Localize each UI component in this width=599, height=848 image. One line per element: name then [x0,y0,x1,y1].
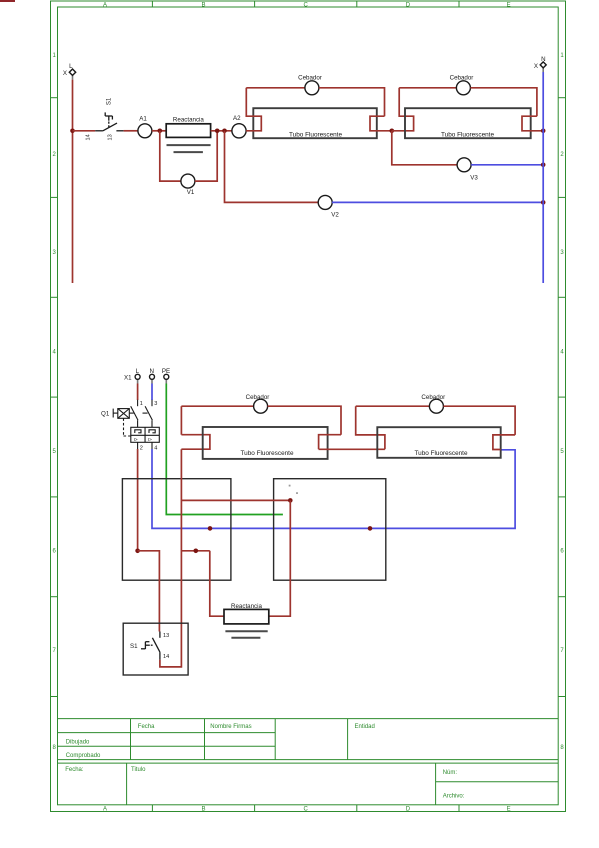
svg-text:A2: A2 [233,115,241,122]
frame column letters top [103,2,511,8]
svg-text:8: 8 [560,745,564,751]
svg-text:3: 3 [154,401,157,407]
box right tiny marks [289,485,291,487]
svg-text:4: 4 [560,350,564,356]
tube 4 right electrode [493,435,515,450]
starter cebador 1 [305,81,319,95]
svg-text:Tubo Fluorescente: Tubo Fluorescente [240,450,293,457]
tube 2 right electrode [522,116,543,131]
wire A1 to reactancia [152,130,166,132]
thermal hook pole 2 [149,430,155,433]
mechanical dashed link [123,418,125,436]
wire reactancia to A2 [211,130,232,132]
wire N down to Q1 (blue) [151,384,153,401]
wire node-A horizontal [181,499,290,501]
frame row numbers right [560,53,564,751]
svg-text:Tubo Fluorescente: Tubo Fluorescente [414,450,467,457]
actuator box [118,409,130,419]
trip unit box [131,427,160,442]
svg-text:Cebador: Cebador [450,74,474,81]
lamp V2 [318,195,332,209]
top column ticks [151,1,153,7]
left row ticks [51,97,58,99]
svg-text:14: 14 [86,134,92,140]
terminal X (N, top-right) [534,56,546,72]
svg-text:6: 6 [560,549,564,555]
bottom column ticks [151,805,153,812]
tube 2 body [405,108,531,138]
svg-text:A: A [103,2,107,8]
switch S1 (top, horizontal push-button NO) [95,112,123,130]
svg-text:D: D [406,807,411,813]
luminaire box left [122,479,230,581]
svg-text:Cebador: Cebador [421,394,445,401]
node V1 return [215,129,220,134]
starter cebador 2 [456,81,470,95]
svg-text:Cebador: Cebador [246,394,270,401]
svg-text:V2: V2 [331,212,339,219]
tube 1 left electrode [246,88,261,131]
terminal X1-PE [162,368,170,383]
link bars [129,412,134,414]
svg-text:7: 7 [560,648,564,654]
svg-text:2: 2 [140,445,143,451]
node dot2 [194,549,199,554]
inner border [58,7,559,805]
svg-text:A1: A1 [139,116,147,123]
tube 3 left electrode [181,435,210,450]
svg-text:1: 1 [140,401,143,407]
wire reactancia right riser [269,500,291,616]
svg-text:6: 6 [53,549,57,555]
luminaire box right [274,479,386,581]
svg-text:V1: V1 [187,189,195,196]
frame row numbers left [53,53,57,751]
svg-text:I>: I> [148,437,152,442]
wire cebador 1 right [319,88,385,116]
starter cebador 4 [429,399,443,413]
svg-text:2: 2 [53,152,57,158]
pole 1 blade [131,406,138,420]
terminal X1-L [135,368,140,383]
wire to reactancia left [210,551,224,616]
pole leads below [137,442,139,449]
node V3-N [541,163,546,168]
svg-text:Núm:: Núm: [443,770,458,776]
tube 3 left electrode riser to cebador [180,406,182,435]
wire cebador 3 left [181,405,253,407]
svg-text:8: 8 [53,745,57,751]
svg-text:I>: I> [134,437,138,442]
svg-text:D: D [406,2,411,8]
node L junction [70,129,75,134]
svg-text:X: X [63,70,67,77]
wire Q1-4 down + neutral bus (blue) [152,449,515,528]
svg-text:Dibujado: Dibujado [66,740,90,746]
wire V1 branch left [160,131,181,181]
svg-text:Reactancia: Reactancia [173,116,205,123]
svg-text:X1: X1 [124,374,132,381]
svg-text:4: 4 [53,350,57,356]
tube 1 body [253,108,376,138]
tube 4 left electrode [356,406,385,449]
wire V2 to N (blue) [332,201,543,203]
svg-text:Titulo: Titulo [131,767,146,773]
lamp V3 [457,158,471,172]
svg-text:B: B [201,807,205,813]
svg-text:4: 4 [154,445,157,451]
right row ticks [558,97,565,99]
wire V3 to N (blue) [471,164,543,166]
wire S1 to A1 [124,130,138,132]
node dot1 L feed [135,549,140,554]
wire cebador 1 left [246,87,305,89]
wire N neutral vertical (blue) [542,72,544,283]
wire V2 branch (red) [225,131,319,203]
wire S1-14 riser [160,449,182,667]
lamp V1 [181,174,195,188]
svg-text:Comprobado: Comprobado [66,753,101,759]
svg-text:Fecha: Fecha [138,724,155,730]
node between tubes [390,129,395,134]
tube 3 right electrode [319,435,341,450]
svg-text:V3: V3 [470,174,478,181]
lamp A2 [232,124,246,138]
svg-text:Nombre Firmas: Nombre Firmas [210,724,251,730]
wire tube3 to tube4 [319,448,385,450]
svg-text:B: B [201,2,205,8]
node V2-N [541,200,546,205]
svg-text:3: 3 [53,250,57,256]
svg-text:13: 13 [108,134,114,140]
terminal X (L, top-left) [63,63,76,80]
wire L phase vertical [72,80,74,283]
svg-text:A: A [103,807,107,813]
svg-text:5: 5 [53,449,57,455]
node blue 2 [368,526,373,531]
svg-text:Fecha:: Fecha: [65,767,84,773]
pole 2 blade [145,406,152,420]
wire L to S1 [73,130,96,132]
wire dot1 to S1-13 [138,551,160,632]
svg-text:1: 1 [560,53,564,59]
wire PE down (green) [166,384,283,515]
node tube2 to N [541,129,546,134]
reactancia (bottom ballast) [224,603,269,638]
frame column letters bottom [103,807,511,813]
wire L down to Q1 (red) [137,384,139,401]
svg-text:14: 14 [163,654,169,660]
wire cebador 4 left [356,405,430,407]
svg-text:Tubo Fluorescente: Tubo Fluorescente [289,131,342,138]
node after A1 [158,129,163,134]
wire Q1-2 down (red) [137,449,139,551]
svg-text:13: 13 [163,633,169,639]
terminal X1-N [149,368,154,383]
pole 1 lead [137,400,139,406]
svg-text:7: 7 [53,648,57,654]
tube 4 body [377,427,500,458]
starter cebador 3 [254,399,268,413]
svg-text:1: 1 [53,53,57,59]
svg-text:Archivo:: Archivo: [443,793,465,799]
svg-text:5: 5 [560,449,564,455]
svg-text:3: 3 [560,250,564,256]
svg-text:E: E [507,807,511,813]
wire cebador 4 right [443,406,515,435]
pole 2 lead [151,400,153,406]
wire cebador 3 right [268,406,341,435]
svg-text:2: 2 [560,152,564,158]
switch S1 (bottom push-button NO) [141,632,160,660]
svg-text:S1: S1 [107,97,113,105]
svg-text:C: C [304,807,309,813]
actuator handle bar [112,409,114,418]
svg-text:Entidad: Entidad [355,724,375,730]
node V2 tap [222,129,227,134]
wire V1 branch right [195,131,217,181]
switch S1 enclosure box [123,623,188,675]
svg-text:Tubo Fluorescente: Tubo Fluorescente [441,131,494,138]
wire V3 branch [392,131,458,165]
wire S1 link horizontal [181,550,209,552]
svg-text:X: X [534,63,538,70]
wire cebador 2 left [399,87,456,89]
reactancia (top ballast) [166,116,210,152]
svg-text:Q1: Q1 [101,411,110,418]
svg-text:C: C [304,2,309,8]
svg-text:S1: S1 [130,643,138,650]
tube 1 right electrode [370,116,392,131]
node blue-red crossing 1 [208,526,213,531]
lamp A1 [138,124,152,138]
node reactancia return [288,498,293,503]
corner red mark [0,0,15,2]
thermal hook pole 1 [135,430,141,433]
wire cebador 2 right [470,88,537,116]
tube 3 body [203,427,328,459]
TITLE BLOCK [58,719,559,805]
svg-text:Cebador: Cebador [298,74,322,81]
tube 2 left electrode [392,88,414,131]
breaker Q1 [113,400,159,449]
svg-text:E: E [507,2,511,8]
